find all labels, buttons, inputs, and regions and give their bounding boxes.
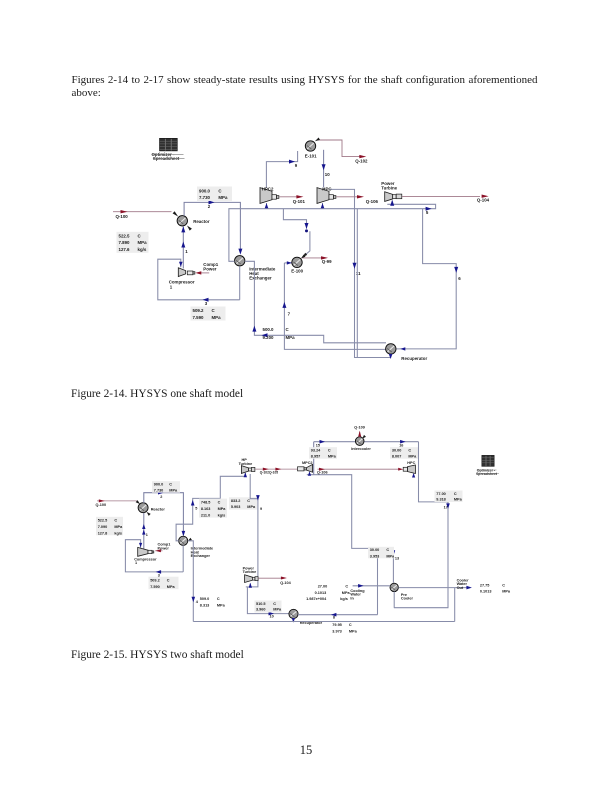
wire stream 2 reactor-IHX (diagram 1) [184,200,242,254]
svg-text:Turbine: Turbine [239,462,253,466]
svg-text:15: 15 [316,443,320,447]
svg-text:5: 5 [426,210,429,215]
label 522.5 C / 7.090 MPa / 127.8 kg/s (diagram 2) [96,517,123,536]
label 509.0 C / 8.313 MPa (diagram 2) [200,597,226,607]
svg-text:Q-102: Q-102 [355,158,368,163]
wire stream 6 turbine-recuperator (diagram 1) [396,209,461,351]
svg-text:Q-109: Q-109 [354,426,365,430]
svg-text:13: 13 [395,557,399,561]
label 509.2 C / 7.590 MPa (diagram 2) [149,577,179,590]
svg-text:1: 1 [135,561,137,565]
label 93.24 C / 8.957 MPa (diagram 2) [309,447,337,459]
svg-text:16: 16 [399,443,403,447]
svg-text:17: 17 [444,506,448,510]
svg-text:79.95C: 79.95C [332,623,352,627]
wire stream 5 IHX-HPturbine (diagram 2) [176,472,247,541]
wire stream 4 recuperator-IHX return (diagram 2) [188,538,199,622]
wire stream 14 precooler-MPC2 (diagram 2) [307,475,399,583]
svg-text:9: 9 [295,163,298,168]
wire recuperator bottom header (diagram 2) [193,621,454,623]
svg-text:1.987e+004kg/s: 1.987e+004kg/s [306,597,348,601]
wire stream 11 HPC-recuperator (diagram 1) [330,189,391,357]
turbine Power Turbine (diagram 2) [243,566,259,582]
svg-text:1: 1 [170,284,173,289]
svg-text:27.00C: 27.00C [318,585,349,589]
svg-text:2: 2 [208,204,211,209]
svg-text:Compressor: Compressor [169,280,195,285]
label 30.00 C / 3.953 MPa (diagram 2) [368,547,395,559]
compressor MPC2 (diagram 2) [298,461,313,476]
svg-text:Q-99: Q-99 [322,259,332,264]
compressor HPC (diagram 1) [317,186,379,208]
svg-text:Q-100: Q-100 [116,214,129,219]
svg-text:3: 3 [205,301,208,306]
heat exchanger Intermediate Heat Exchanger (diagram 1) [235,256,276,281]
wire E-100 feed branch (diagram 1) [283,209,310,258]
svg-text:Cooler: Cooler [401,597,414,601]
wire stream 9 HPC2-E101 (diagram 1) [266,151,297,188]
svg-text:4: 4 [196,600,199,604]
wire MPC2 discharge riser (diagram 2) [313,442,315,475]
wire stream 5 IHX-PowerTurbine (diagram 1) [229,200,436,261]
svg-text:E-100: E-100 [291,268,303,273]
cooler E-100 (diagram 1) [291,257,303,273]
energy stream Q-106 Q-108 shaft (diagram 2) [317,468,401,475]
svg-text:MPC2: MPC2 [302,461,313,465]
label 510.5 C / 3.960 MPa (diagram 2) [255,601,282,613]
svg-text:Out: Out [457,586,464,590]
svg-text:HPC: HPC [322,186,332,191]
label 27.75 C / 0.1013 MPa (diagram 2) [480,584,511,594]
wire precooler outlet drop (diagram 2) [454,588,456,622]
wire riser to precooler line (diagram 2) [377,548,379,614]
label 27.00 C / 0.1013 MPa / 1.987e+004 kg/s (diagram 2) [306,585,350,602]
label 509.2 C / 7.590 MPa (diagram 1) [191,307,226,321]
svg-text:Q-106: Q-106 [366,199,379,204]
svg-text:5: 5 [195,507,197,511]
wire stream 10 PowerTurbine-recuperator (diagram 2) [247,587,289,619]
label 833.2 C / 5.903 MPa (diagram 2) [229,497,257,509]
label 500.0 C / 9.200 MPa (diagram 1) [263,327,296,340]
cooler E-101 (diagram 1) [305,141,317,159]
heat exchanger Intermediate Heat Exchanger (diagram 2) [179,536,214,558]
svg-text:3.973MPa: 3.973MPa [332,629,357,633]
wire stream 1 reactor-compressor (diagram 1) [181,226,188,268]
wire IHX hot return loop 500C (diagram 1) [245,261,386,343]
svg-text:E-101: E-101 [305,153,317,158]
svg-text:Exchanger: Exchanger [249,276,272,281]
wire IHX bottom outlet (diagram 2) [182,545,184,572]
wire stream 8 recuperator cold inlet (diagram 2) [298,613,378,620]
heat exchanger Recuperator (diagram 2) [289,609,323,624]
svg-text:8.313MPa: 8.313MPa [200,604,226,608]
label 77.00 C / 9.318 MPa (diagram 2) [435,491,463,503]
label 79.95 C / 3.973 MPa (diagram 2) [332,623,357,633]
energy stream Q-104 (diagram 2) [258,577,291,585]
energy stream Q-100 (diagram 1) [113,210,178,219]
energy stream Q-109 (diagram 2) [354,426,366,439]
heat exchanger Recuperator (diagram 1) [386,344,428,362]
svg-text:0.1013MPa: 0.1013MPa [480,590,511,594]
wire Cooling Water In (diagram 2) [350,584,390,600]
wire stream 9 HPturbine-PowerTurbine (diagram 2) [246,474,262,588]
svg-text:11: 11 [356,271,361,276]
svg-text:In: In [350,596,354,600]
turbine Power Turbine (diagram 1) [381,181,402,202]
cooler Intercooler (diagram 2) [351,437,371,451]
svg-text:1: 1 [146,533,148,537]
svg-text:HPC2: HPC2 [262,186,274,191]
compressor HPC (diagram 2) [398,461,415,478]
svg-text:6: 6 [458,276,461,281]
svg-text:Intercooler: Intercooler [351,447,371,451]
reactor Reactor (diagram 1) [177,216,210,231]
label 522.5 C / 7.890 MPa / 127.6 kg/s (diagram 1) [117,232,149,253]
label 748.5 C / 8.163 MPa / 211.0 kg/s (diagram 2) [199,499,227,518]
compressor Compressor (diagram 2) [134,542,170,565]
svg-text:1: 1 [185,249,188,254]
svg-text:10: 10 [270,614,274,618]
label 900.0 C / 7.730 MPa (diagram 2) [152,481,180,493]
compressor Compressor (diagram 1) [169,262,219,289]
svg-text:Power: Power [203,266,216,271]
svg-text:Turbine: Turbine [381,185,397,190]
svg-text:900.0C: 900.0C [154,483,173,487]
svg-text:Power: Power [158,546,170,550]
spreadsheet icon Optimizer-Spreadsheet (diagram 1) [152,138,185,161]
svg-text:Q-100: Q-100 [96,503,107,507]
energy stream Q-100 (diagram 2) [96,499,141,506]
energy stream Q-102 Q-105 shaft (diagram 2) [255,468,297,475]
svg-text:10: 10 [325,172,330,177]
svg-text:0.1013MPa: 0.1013MPa [315,591,351,595]
cooler Pre Cooler (diagram 2) [390,583,413,608]
svg-text:Spreadsheet: Spreadsheet [476,472,498,476]
svg-text:Q-104: Q-104 [477,198,490,203]
svg-text:Reactor: Reactor [151,508,166,512]
energy stream Q-99 (diagram 1) [301,255,332,265]
svg-text:Reactor: Reactor [193,219,210,224]
energy stream Q-102 (diagram 1) [315,138,368,164]
svg-text:9: 9 [260,507,262,511]
energy stream Q-104 (diagram 1) [402,195,490,203]
wire Cooler Water Out (diagram 2) [398,579,472,590]
svg-text:2: 2 [160,495,162,499]
wire stream 10 E101-HPC (diagram 1) [322,150,331,188]
turbine HP Turbine (diagram 2) [239,458,255,473]
svg-text:Q-102Q-105: Q-102Q-105 [260,470,278,474]
wire stream 7 recuperator-E100 (diagram 1) [282,261,386,349]
wire compressor suction loop stream 3 (diagram 2) [125,540,183,578]
wire stream 15 16 intercooler line (diagram 2) [314,440,419,447]
wire stream 2 reactor-IHX (diagram 2) [144,491,185,537]
svg-text:Q-104: Q-104 [280,581,291,585]
svg-text:7: 7 [288,311,291,316]
svg-text:Turbine: Turbine [243,570,257,574]
reactor Reactor (diagram 2) [138,503,165,516]
wire compressor suction loop stream 3 (diagram 1) [158,259,240,306]
svg-text:509.0C: 509.0C [200,597,220,601]
svg-text:Q-101: Q-101 [293,199,306,204]
wire IHX bottom outlet (diagram 1) [239,266,241,300]
wire recuperator standpipe (diagram 1) [356,209,358,358]
svg-text:27.75C: 27.75C [480,584,505,588]
label 30.00 C / 8.007 MPa (diagram 2) [390,447,418,459]
svg-text:HPC: HPC [407,461,415,465]
svg-text:Compressor: Compressor [134,557,157,561]
compressor HPC2 (diagram 1) [260,186,305,208]
wire stream 1 reactor-compressor (diagram 2) [142,513,148,549]
wire stream 17 HPC-precooler (diagram 2) [394,442,450,608]
label 900.0 C / 7.730 MPa (diagram 1) [197,187,232,202]
svg-text:Q-106: Q-106 [317,470,328,474]
spreadsheet icon Optimizer-Spreadsheet (diagram 2) [476,455,499,476]
svg-text:8: 8 [333,616,335,620]
svg-text:Recuperator: Recuperator [401,356,427,361]
svg-text:500.0C: 500.0C [263,327,290,332]
